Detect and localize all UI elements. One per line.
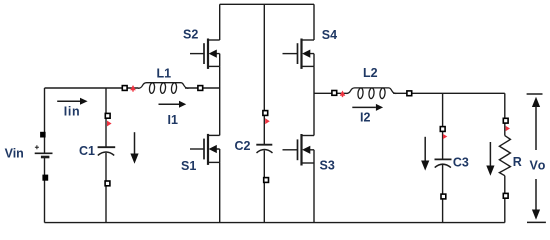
node R bottom terminal — [503, 193, 508, 198]
wire left leg middle (S2 source through input rail to S1 drain) — [219, 66, 221, 135]
wire C3 branch upper — [442, 93, 444, 159]
wire C2 branch upper (from top rail) — [263, 4, 265, 144]
node C3 bottom terminal — [441, 194, 446, 199]
capacitor C1 — [98, 147, 116, 155]
node L2 red flag — [340, 91, 346, 98]
node battery bottom terminal — [43, 175, 47, 180]
node battery top terminal — [41, 133, 45, 137]
svg-text:S1: S1 — [181, 159, 196, 173]
node C1 red flag — [107, 121, 112, 127]
node C3 top terminal — [440, 127, 445, 132]
resistor R zigzag — [499, 136, 510, 176]
wire output rail left of L2 — [314, 92, 347, 94]
wire right leg upper (top rail to S4 drain) — [313, 4, 315, 40]
arrow I1 — [159, 101, 187, 108]
node C3 red flag — [443, 134, 447, 139]
terminal squares — [41, 86, 508, 199]
wire R branch lower — [504, 176, 506, 223]
svg-text:L1: L1 — [157, 67, 172, 81]
svg-text:C1: C1 — [79, 144, 95, 158]
battery source Vin — [35, 145, 53, 157]
svg-text:I1: I1 — [168, 113, 178, 127]
svg-text:S4: S4 — [322, 28, 337, 42]
wire right leg lower (S3 source to bottom rail) — [313, 163, 315, 223]
node C2 red flag — [265, 118, 270, 124]
svg-text:I2: I2 — [360, 111, 370, 125]
wire input rail right of L1 — [185, 87, 220, 89]
node L2 left terminal — [332, 91, 337, 96]
wire top rail — [220, 3, 314, 5]
wire C2 branch lower — [263, 150, 265, 222]
arrow R current (down) — [486, 142, 494, 176]
transistor S1 — [190, 134, 220, 165]
node R top terminal — [503, 118, 508, 123]
arrow I2 — [352, 104, 383, 111]
svg-text:S2: S2 — [183, 27, 198, 41]
wire left leg upper (top rail to S2 drain) — [219, 4, 221, 40]
red current flags — [107, 85, 510, 139]
wire left edge lower (battery to bottom rail) — [44, 158, 46, 223]
svg-text:C2: C2 — [235, 139, 251, 153]
node L1 left terminal — [122, 86, 127, 91]
arrow Iin — [57, 98, 87, 105]
wire C1 branch upper — [105, 88, 107, 147]
node R red flag — [506, 126, 510, 131]
wire input rail left of L1 — [45, 87, 139, 89]
wire left edge upper (input rail to battery) — [44, 88, 46, 153]
arrow C1 current (down) — [130, 132, 138, 164]
wire output rail right of L2 — [393, 92, 505, 94]
node C2 top terminal — [263, 111, 268, 116]
transistor S2 — [190, 39, 220, 69]
wire bottom rail — [45, 222, 505, 224]
node L2 right terminal — [407, 91, 412, 96]
transistor S4 — [283, 39, 315, 69]
node L1 right terminal — [198, 86, 203, 91]
transistor S3 — [283, 134, 315, 166]
node L1 red flag — [130, 85, 136, 92]
arrow C3 current (down) — [421, 137, 429, 171]
svg-text:S3: S3 — [320, 159, 335, 173]
node C1 bottom terminal — [105, 181, 110, 186]
Vo measurement indicator — [527, 94, 546, 222]
capacitor C2 — [256, 145, 272, 153]
svg-text:R: R — [513, 155, 522, 169]
svg-text:L2: L2 — [363, 66, 378, 80]
capacitor C3 — [435, 159, 452, 167]
svg-text:Vo: Vo — [530, 159, 547, 173]
svg-text:C3: C3 — [453, 156, 469, 170]
node C1 top terminal — [105, 113, 110, 118]
wire right leg middle (S4 source through output rail to S3 drain) — [313, 66, 315, 135]
wire C3 branch lower — [442, 165, 444, 223]
node C2 bottom terminal — [264, 178, 269, 183]
wire C1 branch lower — [105, 153, 107, 223]
svg-text:Iin: Iin — [64, 105, 80, 119]
wire left leg lower (S1 source to bottom rail) — [219, 162, 221, 222]
inductor L1 coil — [138, 83, 188, 94]
wire R branch upper — [504, 93, 506, 135]
svg-text:Vin: Vin — [5, 147, 24, 161]
inductor L2 coil — [346, 88, 396, 99]
